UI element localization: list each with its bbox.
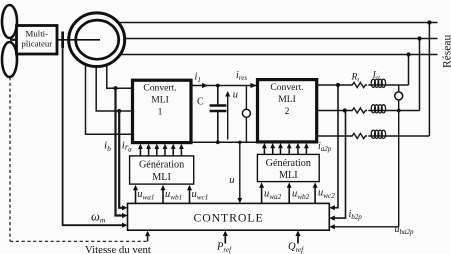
- turbine blade upper: [2, 5, 17, 38]
- resistor R_t branch 1: [351, 82, 368, 87]
- node capacitor top: [216, 84, 220, 88]
- arrow u DC voltage (up): [227, 95, 229, 140]
- inductor branch 3: [371, 130, 385, 138]
- wire branch 3 (MLI2 phase c): [317, 135, 351, 137]
- arrow i_rb into CONTROLE: [122, 205, 128, 210]
- wire riser branch1 to net line 3: [408, 55, 410, 86]
- wire u measurement down to CONTROLE: [239, 142, 241, 198]
- svg-text:Génération: Génération: [266, 158, 311, 169]
- arrows gate signals Génération2 to MLI2 (6): [264, 148, 306, 155]
- control box CONTROLE: [128, 203, 330, 230]
- wire riser branch3 to net line 1: [428, 23, 430, 137]
- wire stator-to-MLI1 phase c: [86, 45, 133, 134]
- svg-text:Vitesse du vent: Vitesse du vent: [85, 244, 151, 254]
- node tap i_rb on phase b: [117, 109, 121, 113]
- svg-text:Convert.: Convert.: [143, 82, 176, 93]
- node tap i_b2p: [343, 108, 347, 112]
- svg-text:Convert.: Convert.: [270, 82, 303, 93]
- converter U2 box Convert. MLI 2: [258, 80, 317, 142]
- generator G (outer circle): [69, 13, 125, 67]
- wire net line 1 (grid phase a): [105, 22, 438, 24]
- converter U1 box Convert. MLI 1: [133, 80, 192, 142]
- PWM generator box 1 Génération MLI: [130, 156, 194, 184]
- svg-text:Génération: Génération: [139, 160, 184, 171]
- arrow u into CONTROLE: [237, 198, 242, 204]
- svg-text:Réseau: Réseau: [442, 35, 451, 68]
- gearbox box Multiplicateur: [17, 26, 58, 55]
- resistor branch 2: [351, 108, 368, 113]
- turbine blade lower: [2, 42, 17, 77]
- node riser2/net2: [417, 36, 421, 40]
- node sensor on branch 2: [397, 109, 401, 113]
- arrow i_ra into CONTROLE: [122, 213, 128, 218]
- arrow i_b2p into CONTROLE: [329, 216, 335, 221]
- arrow u_ba2p into CONTROLE: [329, 224, 335, 229]
- wire stator-to-MLI1 phase a (vertical + horizontal): [107, 45, 133, 88]
- svg-text:2: 2: [285, 106, 290, 117]
- wire branch 1 (MLI2 phase a): [317, 84, 351, 86]
- generator G (inner circle): [76, 20, 119, 59]
- arrows u_w1 control signals CONTROLE to Génération1 (3): [136, 189, 190, 203]
- arrow P_ref into CONTROLE: [224, 235, 226, 244]
- arrow Q_ref into CONTROLE: [297, 235, 299, 244]
- svg-text:MLI: MLI: [279, 170, 298, 181]
- arrow i_a2p into CONTROLE: [329, 205, 335, 210]
- turbine hub shaft: [10, 39, 17, 41]
- svg-text:C: C: [197, 96, 204, 107]
- arrows u_w2 control signals CONTROLE to Génération2 (3): [262, 187, 316, 203]
- shaft line into generator: [57, 39, 100, 41]
- PWM generator box 2 Génération MLI: [257, 154, 319, 181]
- wire i_ra measurement to CONTROLE: [116, 88, 124, 215]
- inductor L_t branch 1: [371, 79, 385, 87]
- wire branch 2 (MLI2 phase b): [317, 110, 351, 112]
- wire wind speed (dashed horizontal): [10, 240, 148, 242]
- inductor branch 2: [371, 105, 385, 113]
- node capacitor bottom: [216, 140, 220, 144]
- resistor branch 3: [351, 133, 368, 138]
- node tap i_ra on phase a: [113, 86, 117, 90]
- wire net line 3 (grid phase c): [105, 54, 438, 56]
- svg-text:MLI: MLI: [278, 94, 296, 105]
- svg-text:MLI: MLI: [152, 172, 171, 183]
- arrows gate signals Génération1 to MLI1 (6): [140, 148, 181, 156]
- voltage sensor circle on DC bus: [245, 86, 247, 110]
- wire DC bus bottom rail: [191, 141, 258, 143]
- node u tap on bottom rail: [238, 141, 241, 144]
- svg-text:CONTROLE: CONTROLE: [193, 210, 263, 224]
- wire u_ba2p to CONTROLE: [334, 226, 399, 228]
- svg-text:Multi-: Multi-: [26, 29, 49, 39]
- wire i_b2p measurement to CONTROLE: [334, 111, 346, 219]
- arrow omega_m into CONTROLE: [122, 223, 128, 228]
- arrow wind speed into CONTROLE: [147, 235, 149, 241]
- wire riser branch2 to net line 2: [419, 39, 421, 111]
- svg-text:u: u: [233, 90, 238, 101]
- wire wind speed (dashed vertical): [9, 77, 11, 241]
- shaft coupling tick: [61, 32, 64, 49]
- wire i_rb measurement to CONTROLE: [119, 111, 123, 208]
- wire u_ba2p measurement down: [398, 100, 400, 227]
- svg-text:1: 1: [158, 106, 163, 117]
- node tap i_a2p: [336, 83, 340, 87]
- wire DC bus top rail: [191, 85, 258, 87]
- wire stator-to-MLI1 phase b: [96, 45, 132, 111]
- wire net line 2 (grid phase b): [105, 38, 438, 40]
- capacitor C plates: [210, 104, 227, 107]
- svg-text:plicateur: plicateur: [21, 38, 52, 48]
- node riser1/net3: [406, 52, 410, 56]
- arrow i_res on top rail: [251, 83, 257, 88]
- svg-text:u: u: [229, 175, 234, 186]
- voltage sensor circle u_ba2p: [398, 85, 400, 92]
- wire i_a2p measurement to CONTROLE: [334, 85, 339, 208]
- svg-text:MLI: MLI: [151, 94, 169, 105]
- arrow i_1 on top rail: [202, 83, 208, 88]
- node riser3/net1: [427, 20, 431, 24]
- wire speed sensor omega_m to CONTROLE: [63, 49, 124, 226]
- capacitor C leads: [217, 86, 219, 105]
